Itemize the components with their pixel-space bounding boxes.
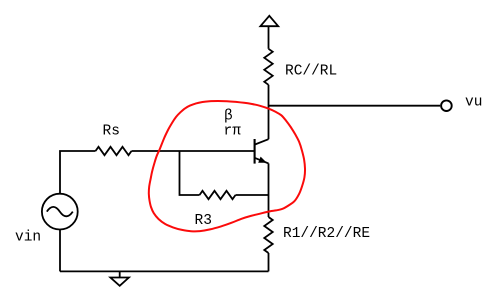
ground symbol: [119, 271, 121, 277]
source vin sine: [47, 207, 73, 216]
svg-text:vu: vu: [465, 95, 482, 111]
resistor RC//RL: [264, 49, 272, 85]
wire arrow to RC//RL: [268, 26, 270, 49]
svg-text:β: β: [224, 109, 233, 125]
transistor Q1 emitter: [255, 158, 269, 164]
power supply arrow (VCC): [260, 16, 278, 26]
highlight loop (red hand-drawn ellipse): [149, 101, 305, 231]
wire emitter to R1//R2//RE: [268, 163, 270, 217]
transistor Q1 emitter arrow: [258, 157, 267, 163]
resistor Rs: [96, 147, 132, 155]
wire vin to ground rail: [59, 230, 61, 272]
svg-text:rπ: rπ: [224, 124, 242, 140]
transistor Q1 base bar: [254, 139, 256, 164]
svg-text:vin: vin: [15, 230, 41, 246]
wire vin to Rs: [60, 151, 96, 194]
wire node vu: [269, 105, 441, 107]
terminal vu: [441, 100, 452, 111]
svg-text:R1//R2//RE: R1//R2//RE: [283, 226, 370, 242]
wire base: [132, 150, 255, 152]
svg-text:R3: R3: [195, 213, 212, 229]
wire R1//R2//RE to rail: [268, 253, 270, 271]
wire R3 to emitter node: [236, 194, 269, 196]
wire RC//RL to collector: [268, 85, 270, 139]
transistor Q1 collector: [255, 139, 269, 144]
svg-text:RC//RL: RC//RL: [285, 64, 337, 80]
source vin circle: [42, 194, 78, 230]
resistor R3: [200, 191, 236, 199]
ground rail wire: [60, 270, 269, 272]
svg-text:Rs: Rs: [103, 124, 120, 140]
resistor R1//R2//RE: [264, 217, 272, 253]
wire base branch down: [180, 151, 200, 195]
